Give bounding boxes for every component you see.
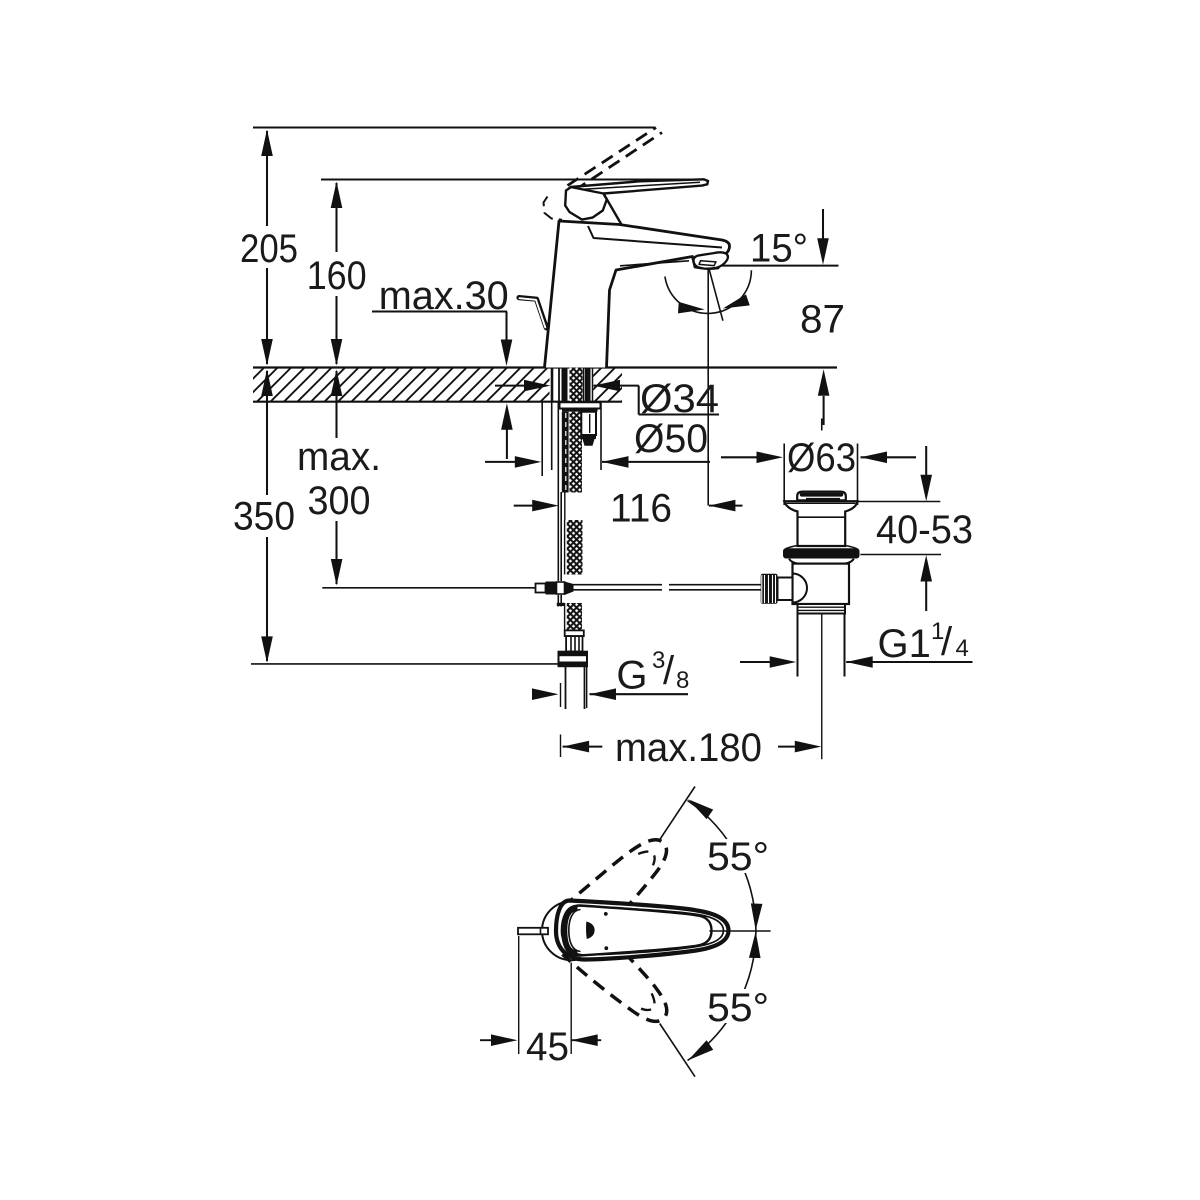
spout underside second line — [620, 261, 689, 266]
dashed raised handle hub — [544, 197, 563, 220]
braided hose lower section — [564, 603, 566, 630]
dimension 160 vertical — [335, 183, 337, 252]
thread collar — [798, 604, 846, 614]
dashed raised handle blade — [568, 128, 663, 191]
counter hatching — [230, 368, 1061, 402]
svg-text:max.: max. — [297, 435, 381, 479]
15 degree vertical axis — [707, 266, 709, 506]
tailpipe — [797, 614, 799, 677]
reference line 160 level — [321, 178, 705, 180]
braided hose middle section — [564, 520, 566, 575]
svg-text:40-53: 40-53 — [876, 508, 973, 552]
svg-text:45: 45 — [526, 1025, 569, 1069]
flange under counter — [560, 402, 601, 408]
svg-text:300: 300 — [308, 479, 371, 523]
55 deg line upper — [660, 787, 695, 840]
svg-text:350: 350 — [233, 495, 295, 539]
svg-text:Ø50: Ø50 — [634, 417, 708, 461]
top reference line 205 level — [253, 126, 655, 128]
counter bottom line — [253, 401, 622, 403]
faucet body outline — [545, 221, 730, 368]
15 degree slanted axis — [708, 266, 723, 321]
counter top line — [253, 366, 837, 368]
grip left cap thick crescent — [564, 908, 577, 953]
dimension 50 — [485, 461, 516, 463]
dimension 205 vertical — [266, 131, 268, 226]
center line tick above button — [821, 419, 823, 431]
svg-text:max.30: max.30 — [379, 274, 509, 318]
dimension 63 — [721, 456, 757, 458]
valve body — [793, 564, 850, 604]
rod connector — [778, 578, 793, 601]
svg-text:15°: 15° — [750, 227, 808, 271]
knurled knob — [761, 574, 778, 604]
svg-text:160: 160 — [307, 254, 367, 298]
dimension max180 — [563, 746, 603, 748]
87 dimension — [708, 265, 839, 267]
arrowheads — [261, 130, 932, 753]
push button — [797, 492, 846, 501]
max.30 leader — [372, 310, 507, 312]
handle hub — [565, 187, 607, 220]
dimension 116 — [514, 505, 533, 507]
svg-text:Ø63: Ø63 — [787, 436, 856, 480]
svg-text:55°: 55° — [707, 835, 769, 879]
label 55deg upper bg — [704, 839, 772, 873]
handle neck right edge — [604, 194, 623, 226]
dimension G3/8 — [532, 693, 538, 695]
dimension 40-53 — [925, 446, 927, 475]
inner outline — [562, 906, 724, 955]
hose collar — [565, 630, 584, 636]
max300 bottom ref line — [322, 587, 535, 589]
dimension 34 — [495, 385, 525, 387]
threaded shank dark bar below flange — [562, 412, 569, 493]
pop-up flange and neck — [784, 501, 858, 546]
55 deg arc lower — [688, 931, 756, 1061]
hose nut — [559, 652, 588, 667]
grip surface — [563, 905, 712, 955]
screw dots — [604, 912, 608, 916]
svg-text:/: / — [941, 620, 953, 664]
svg-text:8: 8 — [676, 667, 689, 694]
svg-text:/: / — [663, 649, 675, 693]
svg-text:4: 4 — [956, 635, 969, 662]
base circle — [542, 901, 601, 960]
shank in counter — [551, 368, 554, 402]
mounting bracket and nut — [581, 412, 596, 435]
svg-text:G: G — [616, 654, 647, 698]
spout top face crease — [588, 226, 722, 248]
solid handle outer — [556, 901, 729, 960]
svg-text:55°: 55° — [707, 986, 769, 1030]
logo recess — [586, 922, 595, 940]
svg-text:max.180: max.180 — [615, 726, 762, 770]
washer — [789, 559, 854, 564]
handle blade over hub — [571, 179, 709, 193]
set screw pin — [518, 928, 548, 935]
connector pipe G3/8 — [565, 667, 567, 710]
svg-text:205: 205 — [240, 227, 298, 271]
rod lower end — [557, 595, 559, 607]
horizontal pop-up rod — [574, 584, 663, 586]
dimension G1 1/4 — [740, 661, 770, 663]
svg-text:G1: G1 — [878, 622, 931, 666]
pop-up vertical rod — [557, 402, 559, 581]
braided hose upper section — [570, 412, 583, 493]
svg-text:87: 87 — [800, 298, 845, 342]
svg-text:Ø34: Ø34 — [640, 377, 719, 421]
dimension 350 vertical — [266, 371, 268, 495]
45 dimension — [518, 936, 520, 1054]
center line right — [709, 930, 770, 932]
hose ferrule — [566, 636, 582, 651]
55 deg arc upper — [688, 801, 756, 931]
dashed handle lower — [562, 921, 679, 1036]
svg-text:116: 116 — [610, 487, 672, 531]
tee arc on left of body — [793, 574, 808, 603]
15 degree arc — [665, 270, 752, 313]
rubber seal ring — [785, 546, 798, 550]
label 55deg lower bg — [704, 989, 772, 1023]
pop-up lever hook — [519, 298, 546, 328]
rod clamp — [536, 584, 546, 593]
350 bottom ref line — [251, 663, 559, 665]
aerator — [693, 252, 727, 268]
dashed handle upper — [563, 826, 680, 941]
grip inner thin arc — [569, 910, 581, 952]
55 deg line lower — [660, 1024, 695, 1077]
dimension max300 vertical — [335, 371, 337, 438]
center line below valve — [821, 599, 823, 760]
